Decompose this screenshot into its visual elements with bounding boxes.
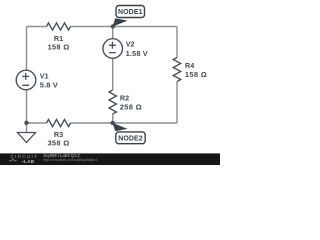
- resistor R3: [47, 119, 71, 126]
- svg-text:http://circuitlab.com/c88bqv5a: http://circuitlab.com/c88bqv5a6kr1: [43, 158, 98, 162]
- resistor R2: [109, 90, 116, 114]
- svg-text:NODE1: NODE1: [118, 9, 143, 16]
- wire bottom rail: [27, 122, 178, 124]
- svg-text:258 Ω: 258 Ω: [120, 103, 142, 112]
- node NODE2 flag leader: [113, 123, 128, 131]
- voltage source V1: [16, 70, 36, 90]
- node junction dot NODE2: [110, 121, 114, 125]
- wire ground stem: [26, 123, 28, 133]
- wire right rail: [176, 27, 178, 124]
- svg-text:R4: R4: [185, 61, 194, 70]
- ground: [18, 133, 36, 143]
- svg-text:V2: V2: [126, 40, 135, 49]
- svg-text:358 Ω: 358 Ω: [47, 139, 69, 148]
- wire middle branch: [112, 27, 114, 124]
- svg-text:▪LAB: ▪LAB: [22, 159, 35, 164]
- footer bar: [0, 153, 220, 165]
- wire left rail: [26, 27, 28, 124]
- svg-text:158 Ω: 158 Ω: [185, 70, 207, 79]
- voltage source V2: [103, 39, 123, 59]
- svg-text:R2: R2: [120, 94, 129, 103]
- footer logo waveform: [9, 159, 17, 161]
- wire top rail: [27, 26, 178, 28]
- svg-text:5.8 V: 5.8 V: [40, 81, 58, 90]
- svg-text:1.58 V: 1.58 V: [126, 49, 148, 58]
- svg-text:NODE2: NODE2: [118, 136, 143, 143]
- resistor R1: [47, 23, 71, 30]
- node NODE1 flag leader: [113, 18, 128, 26]
- node NODE1 flag box: [116, 6, 145, 18]
- node NODE2 flag box: [116, 132, 145, 144]
- resistor R4: [173, 58, 180, 82]
- node junction dot NODE1: [111, 24, 115, 28]
- svg-text:158 Ω: 158 Ω: [47, 43, 69, 52]
- node junction dot left: [24, 121, 28, 125]
- svg-text:V1: V1: [40, 72, 49, 81]
